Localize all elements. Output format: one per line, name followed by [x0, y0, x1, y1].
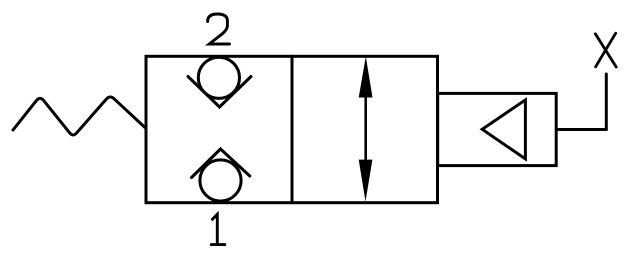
pilot line vertical wire [605, 74, 608, 130]
double arrow shaft [364, 94, 367, 163]
arrowhead bottom (filled) [359, 160, 373, 202]
port label 1 [211, 214, 225, 244]
arrowhead top (filled) [359, 57, 373, 98]
check valve ball (port 1, bottom circle) [200, 160, 241, 201]
check valve ball (port 2, top circle) [198, 57, 239, 98]
pilot port label X [595, 33, 616, 67]
check valve seat (port 2, V below circle) [188, 77, 251, 108]
valve body (main rectangle) [146, 56, 438, 202]
pilot box (right rectangle) [438, 93, 557, 165]
pilot line horizontal wire [556, 128, 606, 131]
port label 2 [208, 14, 230, 44]
spring (zigzag wire, left side) [13, 97, 146, 135]
pilot triangle (hollow, pointing left) [482, 100, 525, 159]
section divider wire [291, 56, 294, 202]
check valve seat (port 1, inverted V above circle) [192, 149, 250, 178]
